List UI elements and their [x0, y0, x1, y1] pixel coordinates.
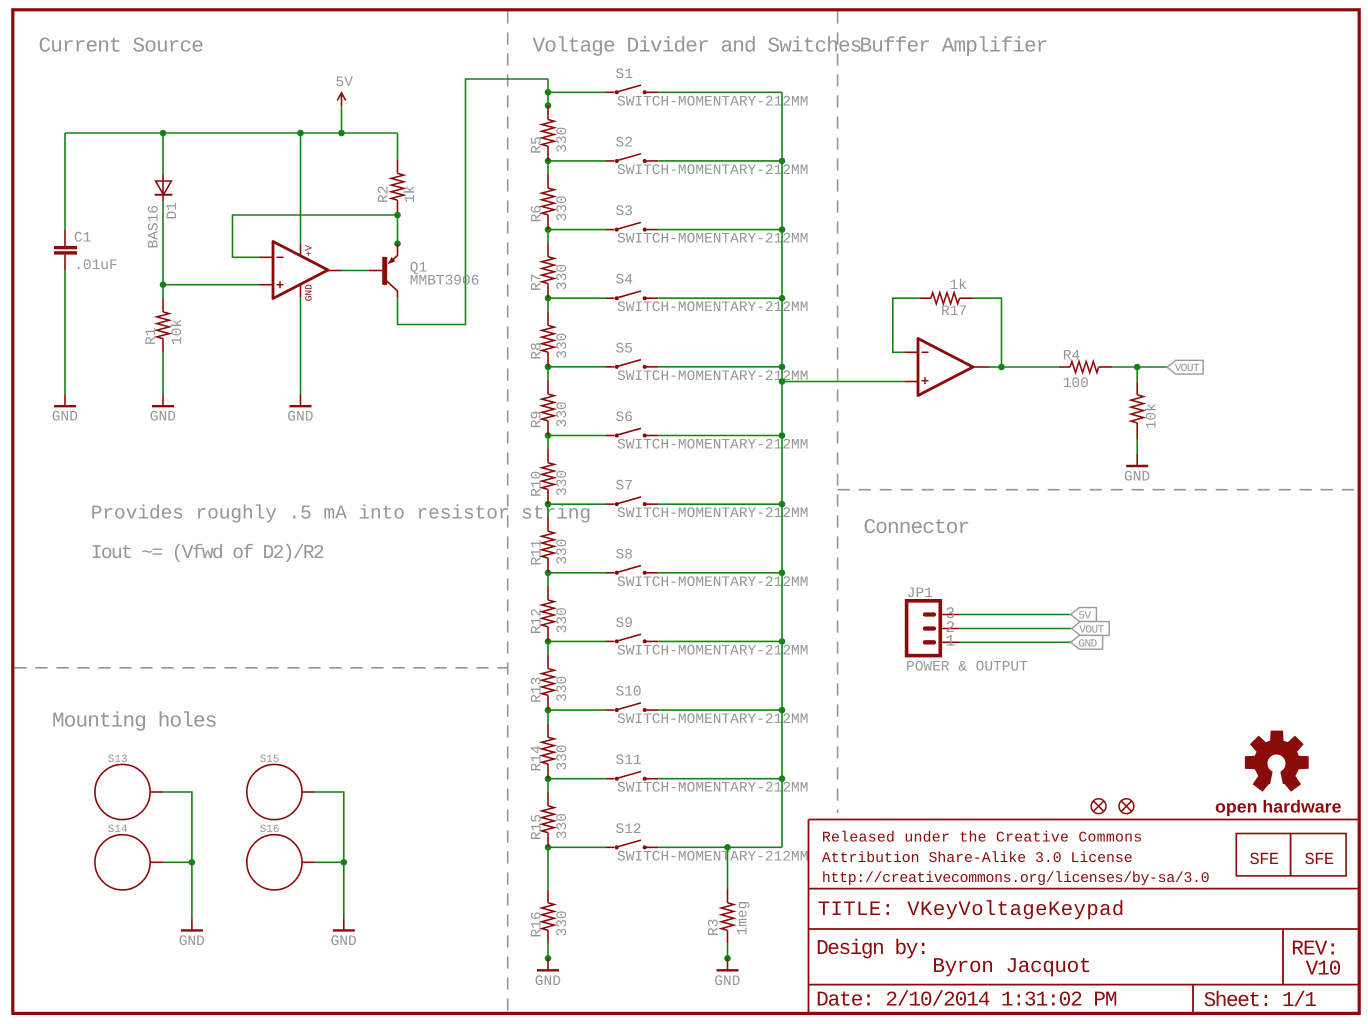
svg-text:1k: 1k: [403, 186, 419, 203]
pin 1: [925, 640, 934, 644]
svg-text:SWITCH-MOMENTARY-212MM: SWITCH-MOMENTARY-212MM: [617, 781, 808, 797]
open hardware logo: [1245, 731, 1309, 792]
svg-text:330: 330: [555, 264, 571, 290]
op-amp U1 (current source): [163, 284, 260, 286]
switch S10: [548, 709, 606, 711]
svg-text:330: 330: [555, 333, 571, 359]
svg-text:S16: S16: [260, 824, 280, 836]
op-amp U2 buffer: [918, 339, 973, 396]
svg-text:330: 330: [555, 744, 571, 770]
net flag VOUT: [1167, 360, 1203, 374]
resistor R1 10k: [162, 285, 164, 299]
pin 3: [925, 612, 934, 616]
junction bus S7: [779, 501, 786, 508]
svg-text:S7: S7: [616, 479, 633, 495]
svg-text:MMBT3906: MMBT3906: [410, 274, 480, 290]
svg-text:GND: GND: [331, 934, 357, 950]
title block: [809, 819, 1358, 821]
mounting hole S13: [95, 764, 150, 819]
svg-text:VOUT: VOUT: [1175, 363, 1200, 375]
svg-text:330: 330: [555, 676, 571, 702]
svg-text:1: 1: [946, 633, 956, 651]
wire bus right vertical: [781, 92, 783, 847]
junction bus S4: [779, 295, 786, 302]
junction 5V/bus: [338, 130, 345, 137]
net flag VOUT: [1072, 622, 1110, 636]
mounting hole S16: [247, 835, 302, 890]
feedback wire: [893, 298, 920, 352]
ground: [343, 918, 345, 930]
switch S8: [548, 572, 606, 574]
svg-text:SWITCH-MOMENTARY-212MM: SWITCH-MOMENTARY-212MM: [617, 300, 808, 316]
svg-text:Design by:: Design by:: [816, 938, 928, 961]
svg-text:SWITCH-MOMENTARY-212MM: SWITCH-MOMENTARY-212MM: [617, 712, 808, 728]
svg-text:S5: S5: [616, 341, 633, 357]
node VOUT: [1134, 364, 1141, 371]
svg-text:10k: 10k: [1145, 403, 1161, 429]
junction string S3: [545, 226, 552, 233]
svg-text:SFE: SFE: [1250, 851, 1279, 870]
svg-text:GND: GND: [714, 974, 740, 990]
transistor Q1 MMBT3906: [397, 215, 399, 244]
svg-text:.01uF: .01uF: [74, 258, 118, 274]
circle-x marks: [1091, 799, 1106, 814]
svg-text:Voltage Divider and Switches: Voltage Divider and Switches: [533, 36, 862, 59]
junction string top: [545, 89, 552, 96]
switch S1: [548, 91, 606, 93]
junction string S6: [545, 432, 552, 439]
svg-text:R12: R12: [530, 608, 546, 634]
svg-text:TITLE: VKeyVoltageKeypad: TITLE: VKeyVoltageKeypad: [818, 899, 1125, 922]
switch S2: [548, 160, 606, 162]
junction string S8: [545, 569, 552, 576]
svg-text:Mounting holes: Mounting holes: [52, 711, 217, 734]
junction string S10: [545, 707, 552, 714]
junction bus S3: [779, 226, 786, 233]
svg-text:R9: R9: [530, 411, 546, 428]
junction bus S9: [779, 638, 786, 645]
svg-text:SWITCH-MOMENTARY-212MM: SWITCH-MOMENTARY-212MM: [617, 94, 808, 110]
svg-text:S12: S12: [616, 822, 642, 838]
svg-text:http://creativecommons.org/lic: http://creativecommons.org/licenses/by-s…: [822, 871, 1209, 887]
svg-text:GND: GND: [52, 410, 78, 426]
ground: [64, 394, 66, 406]
svg-text:R17: R17: [941, 304, 967, 320]
resistor R12 330: [547, 573, 549, 586]
wires to gnd: [302, 791, 315, 793]
junction string S4: [545, 295, 552, 302]
resistor R5 330: [547, 92, 549, 105]
svg-text:R3: R3: [707, 919, 723, 936]
svg-text:R11: R11: [530, 539, 546, 565]
svg-text:Provides roughly .5 mA into re: Provides roughly .5 mA into resistor str…: [91, 502, 591, 524]
ground: [727, 958, 729, 970]
junction string S5: [545, 364, 552, 371]
svg-text:S13: S13: [108, 754, 128, 766]
resistor R16 330: [547, 847, 549, 889]
connector JP1: [907, 601, 941, 656]
svg-text:open hardware: open hardware: [1215, 797, 1342, 817]
output node: [973, 366, 989, 368]
svg-text:GND: GND: [179, 934, 205, 950]
resistor R11 330: [547, 504, 549, 517]
svg-text:R14: R14: [530, 745, 546, 771]
svg-text:330: 330: [555, 813, 571, 839]
svg-text:5V: 5V: [336, 75, 354, 91]
ground: [547, 958, 549, 970]
svg-text:S4: S4: [616, 273, 633, 289]
svg-text:100: 100: [1063, 376, 1089, 392]
svg-text:D1: D1: [165, 202, 181, 219]
svg-text:SFE: SFE: [1305, 851, 1334, 870]
svg-text:Byron Jacquot: Byron Jacquot: [932, 956, 1091, 979]
svg-text:S9: S9: [616, 616, 633, 632]
svg-text:Current Source: Current Source: [39, 36, 204, 59]
resistor R15 330: [547, 779, 549, 792]
junction bus S6: [779, 432, 786, 439]
resistor R7 330: [547, 230, 549, 243]
resistor R4 100: [1059, 366, 1070, 368]
switch S7: [548, 503, 606, 505]
svg-text:330: 330: [555, 127, 571, 153]
junction string S12: [545, 844, 552, 851]
capacitor C1: [64, 133, 66, 230]
svg-text:Connector: Connector: [864, 517, 970, 540]
partition dashed lines: [507, 11, 509, 1011]
svg-text:JP1: JP1: [907, 586, 933, 602]
svg-text:SWITCH-MOMENTARY-212MM: SWITCH-MOMENTARY-212MM: [617, 232, 808, 248]
svg-text:SWITCH-MOMENTARY-212MM: SWITCH-MOMENTARY-212MM: [617, 506, 808, 522]
resistor R8 330: [547, 298, 549, 311]
resistor R9 330: [547, 367, 549, 380]
svg-text:S8: S8: [616, 547, 633, 563]
switch S11: [548, 778, 606, 780]
switch S6: [548, 435, 606, 437]
resistor R13 330: [547, 641, 549, 654]
svg-text:GND: GND: [304, 284, 315, 301]
junction bus S2: [779, 158, 786, 165]
resistor R10 330: [547, 436, 549, 449]
svg-text:1k: 1k: [950, 278, 967, 294]
wire pin2 to VOUT: [960, 628, 1072, 630]
svg-text:S10: S10: [616, 685, 642, 701]
svg-text:GND: GND: [1078, 638, 1097, 650]
switch S4: [548, 297, 606, 299]
svg-text:5V: 5V: [1078, 611, 1091, 623]
svg-text:Attribution Share-Alike 3.0 Li: Attribution Share-Alike 3.0 License: [822, 851, 1133, 867]
switch S9: [548, 640, 606, 642]
svg-text:R10: R10: [530, 471, 546, 497]
op-amp power +V/GND: [300, 133, 302, 244]
svg-text:SWITCH-MOMENTARY-212MM: SWITCH-MOMENTARY-212MM: [617, 849, 808, 865]
svg-text:Iout ~= (Vfwd of D2)/R2: Iout ~= (Vfwd of D2)/R2: [91, 542, 324, 564]
svg-text:330: 330: [555, 401, 571, 427]
switch S12: [548, 846, 606, 848]
junction string S9: [545, 638, 552, 645]
pin 2: [925, 626, 934, 630]
svg-text:S3: S3: [616, 204, 633, 220]
mounting hole S15: [247, 764, 302, 819]
ground: [300, 394, 302, 406]
node R1/D1/opamp: [160, 281, 167, 288]
svg-text:GND: GND: [535, 974, 561, 990]
switch S5: [548, 366, 606, 368]
svg-text:GND: GND: [150, 410, 176, 426]
junction string S2: [545, 158, 552, 165]
wires to gnd: [150, 791, 163, 793]
svg-text:Sheet: 1/1: Sheet: 1/1: [1204, 990, 1317, 1013]
svg-text:POWER & OUTPUT: POWER & OUTPUT: [906, 659, 1028, 675]
svg-text:S11: S11: [616, 753, 642, 769]
svg-text:R6: R6: [530, 205, 546, 222]
wire top supply bus: [65, 132, 398, 134]
svg-text:BAS16: BAS16: [146, 205, 162, 249]
junction bus S8: [779, 569, 786, 576]
svg-text:R2: R2: [376, 186, 392, 203]
svg-text:330: 330: [555, 910, 571, 936]
junction bus S5: [779, 364, 786, 371]
svg-text:SWITCH-MOMENTARY-212MM: SWITCH-MOMENTARY-212MM: [617, 163, 808, 179]
svg-text:C1: C1: [74, 230, 91, 246]
junction string S11: [545, 775, 552, 782]
svg-text:R1: R1: [144, 328, 160, 345]
junction bus S11: [779, 775, 786, 782]
svg-text:Released under the Creative Co: Released under the Creative Commons: [822, 831, 1143, 847]
svg-text:SWITCH-MOMENTARY-212MM: SWITCH-MOMENTARY-212MM: [617, 438, 808, 454]
net flag 5V: [1071, 608, 1097, 622]
svg-text:S6: S6: [616, 410, 633, 426]
svg-text:+V: +V: [304, 245, 315, 257]
svg-text:S14: S14: [108, 824, 128, 836]
ground: [1136, 454, 1138, 466]
svg-text:R16: R16: [530, 911, 546, 937]
svg-text:S2: S2: [616, 135, 633, 151]
diode D1 BAS16: [162, 133, 164, 175]
resistor R2 1k: [397, 133, 399, 160]
svg-text:330: 330: [555, 607, 571, 633]
svg-text:330: 330: [555, 470, 571, 496]
svg-text:R13: R13: [530, 677, 546, 703]
junction D1/bus: [160, 130, 167, 137]
svg-text:330: 330: [555, 539, 571, 565]
junction opamp tap: [779, 378, 786, 385]
svg-text:SWITCH-MOMENTARY-212MM: SWITCH-MOMENTARY-212MM: [617, 643, 808, 659]
node R2/feedback: [394, 212, 401, 219]
svg-text:R15: R15: [530, 814, 546, 840]
svg-text:GND: GND: [1124, 470, 1150, 486]
svg-text:GND: GND: [287, 410, 313, 426]
junction opamp power/bus: [297, 130, 304, 137]
svg-text:Buffer Amplifier: Buffer Amplifier: [860, 36, 1048, 59]
net flag GND: [1071, 635, 1103, 649]
ground: [191, 918, 193, 930]
svg-text:V10: V10: [1306, 959, 1341, 982]
resistor R3 1meg: [724, 844, 731, 851]
mounting hole S14: [95, 835, 150, 890]
wire to buffer + input: [782, 381, 905, 383]
wire into string: [547, 79, 549, 92]
wire pin1 to GND: [960, 641, 1071, 643]
svg-text:R4: R4: [1063, 348, 1080, 364]
resistor R17 1k: [920, 297, 931, 299]
junction string S7: [545, 501, 552, 508]
svg-text:Date: 2/10/2014 1:31:02 PM: Date: 2/10/2014 1:31:02 PM: [816, 990, 1117, 1013]
resistor R6 330: [547, 161, 549, 174]
svg-text:S1: S1: [616, 67, 633, 83]
ground: [162, 394, 164, 406]
svg-text:1meg: 1meg: [736, 901, 752, 936]
SFE boxes: [1236, 834, 1290, 876]
svg-text:R8: R8: [530, 342, 546, 359]
switch S3: [548, 229, 606, 231]
wire pin3 to 5V: [960, 614, 1071, 616]
svg-text:10k: 10k: [170, 319, 186, 345]
svg-text:R7: R7: [530, 274, 546, 291]
junction bus S10: [779, 707, 786, 714]
svg-text:R5: R5: [530, 136, 546, 153]
supply 5V arrow: [341, 106, 343, 133]
resistor 10k to gnd: [1136, 367, 1138, 382]
resistor R14 330: [547, 710, 549, 723]
svg-text:330: 330: [555, 195, 571, 221]
svg-text:SWITCH-MOMENTARY-212MM: SWITCH-MOMENTARY-212MM: [617, 575, 808, 591]
svg-text:S15: S15: [260, 754, 280, 766]
